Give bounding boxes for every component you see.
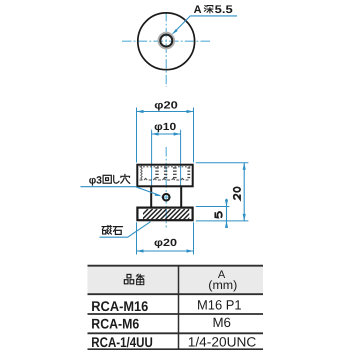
svg-text:M16 P1: M16 P1 xyxy=(197,298,242,313)
svg-text:φ3: φ3 xyxy=(89,174,102,186)
svg-text:1/4-20UNC: 1/4-20UNC xyxy=(188,334,257,349)
svg-text:5.5: 5.5 xyxy=(215,4,233,16)
svg-text:φ10: φ10 xyxy=(154,122,176,133)
svg-text:M6: M6 xyxy=(212,315,231,330)
svg-text:φ20: φ20 xyxy=(154,101,178,112)
svg-text:φ20: φ20 xyxy=(154,238,177,249)
svg-text:RCA-1/4UU: RCA-1/4UU xyxy=(91,334,153,350)
svg-text:RCA-M16: RCA-M16 xyxy=(91,298,148,314)
svg-text:RCA-M6: RCA-M6 xyxy=(91,316,139,332)
svg-text:A: A xyxy=(194,4,202,16)
svg-text:(mm): (mm) xyxy=(208,278,237,292)
